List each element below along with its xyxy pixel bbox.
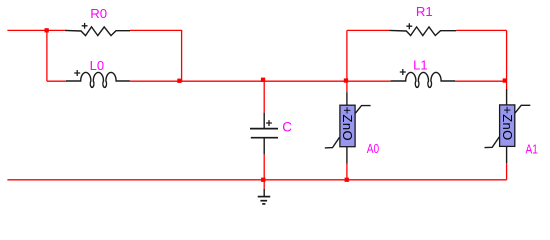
arrester A1 lead bottom xyxy=(506,146,508,163)
wire: R0 output to right corner xyxy=(130,30,182,81)
node: junction A0 bottom xyxy=(345,178,349,182)
svg-text:+ZnO: +ZnO xyxy=(340,107,355,141)
inductor L1 xyxy=(391,72,455,87)
svg-text:R0: R0 xyxy=(90,6,107,21)
node: junction R0/L0 output xyxy=(177,79,181,83)
node: junction capacitor bottom xyxy=(261,178,265,182)
arrester A1 body xyxy=(500,105,515,146)
node: junction A1 top xyxy=(503,78,507,82)
wire: top-left input xyxy=(7,29,64,31)
polarity mark R1 xyxy=(406,23,412,29)
svg-text:A1: A1 xyxy=(526,142,538,156)
arrester A0 bottom hook xyxy=(325,137,340,148)
polarity mark L0 xyxy=(74,70,80,76)
node: junction capacitor top xyxy=(261,78,265,82)
wire: L-level left stub xyxy=(47,80,66,82)
svg-text:+ZnO: +ZnO xyxy=(500,106,515,140)
wire: R1 top right run xyxy=(456,29,506,31)
node: junction A0 top xyxy=(344,78,348,82)
arrester A0 lead top xyxy=(346,92,348,105)
wire: A1 bottom stub xyxy=(506,163,508,180)
resistor R1 xyxy=(389,27,456,36)
wire: capacitor bottom stub xyxy=(263,154,265,179)
arrester A0 top hook xyxy=(355,106,370,114)
wire: left vertical drop xyxy=(46,30,48,81)
svg-text:L1: L1 xyxy=(413,58,427,73)
svg-text:R1: R1 xyxy=(416,4,433,19)
wire: A0 bottom stub xyxy=(346,164,348,180)
svg-text:L0: L0 xyxy=(90,58,104,73)
polarity mark L1 xyxy=(400,69,406,75)
arrester A1 top hook xyxy=(515,105,530,113)
capacitor C xyxy=(263,113,265,129)
wire: L-level middle run xyxy=(130,80,391,82)
node: junction at left input xyxy=(45,28,49,32)
inductor L0 xyxy=(66,72,130,87)
wire: L-level right run xyxy=(455,80,507,82)
svg-text:C: C xyxy=(282,120,292,135)
polarity mark C xyxy=(266,120,272,126)
ground xyxy=(263,189,265,197)
wire: capacitor top stub xyxy=(263,81,265,113)
arrester A0 body xyxy=(340,105,355,147)
arrester A0 lead bottom xyxy=(346,147,348,164)
resistor R0 xyxy=(65,27,130,36)
wire: R1 right vertical xyxy=(506,30,508,89)
arrester A1 lead top xyxy=(506,89,508,105)
wire: R1 top left run xyxy=(347,29,390,31)
wire: ground stub xyxy=(263,180,265,189)
svg-text:A0: A0 xyxy=(367,142,380,156)
wire: bottom bus xyxy=(7,179,506,181)
wire: R1 left vertical xyxy=(346,30,348,92)
polarity mark R0 xyxy=(82,23,88,29)
arrester A1 bottom hook xyxy=(485,137,500,148)
